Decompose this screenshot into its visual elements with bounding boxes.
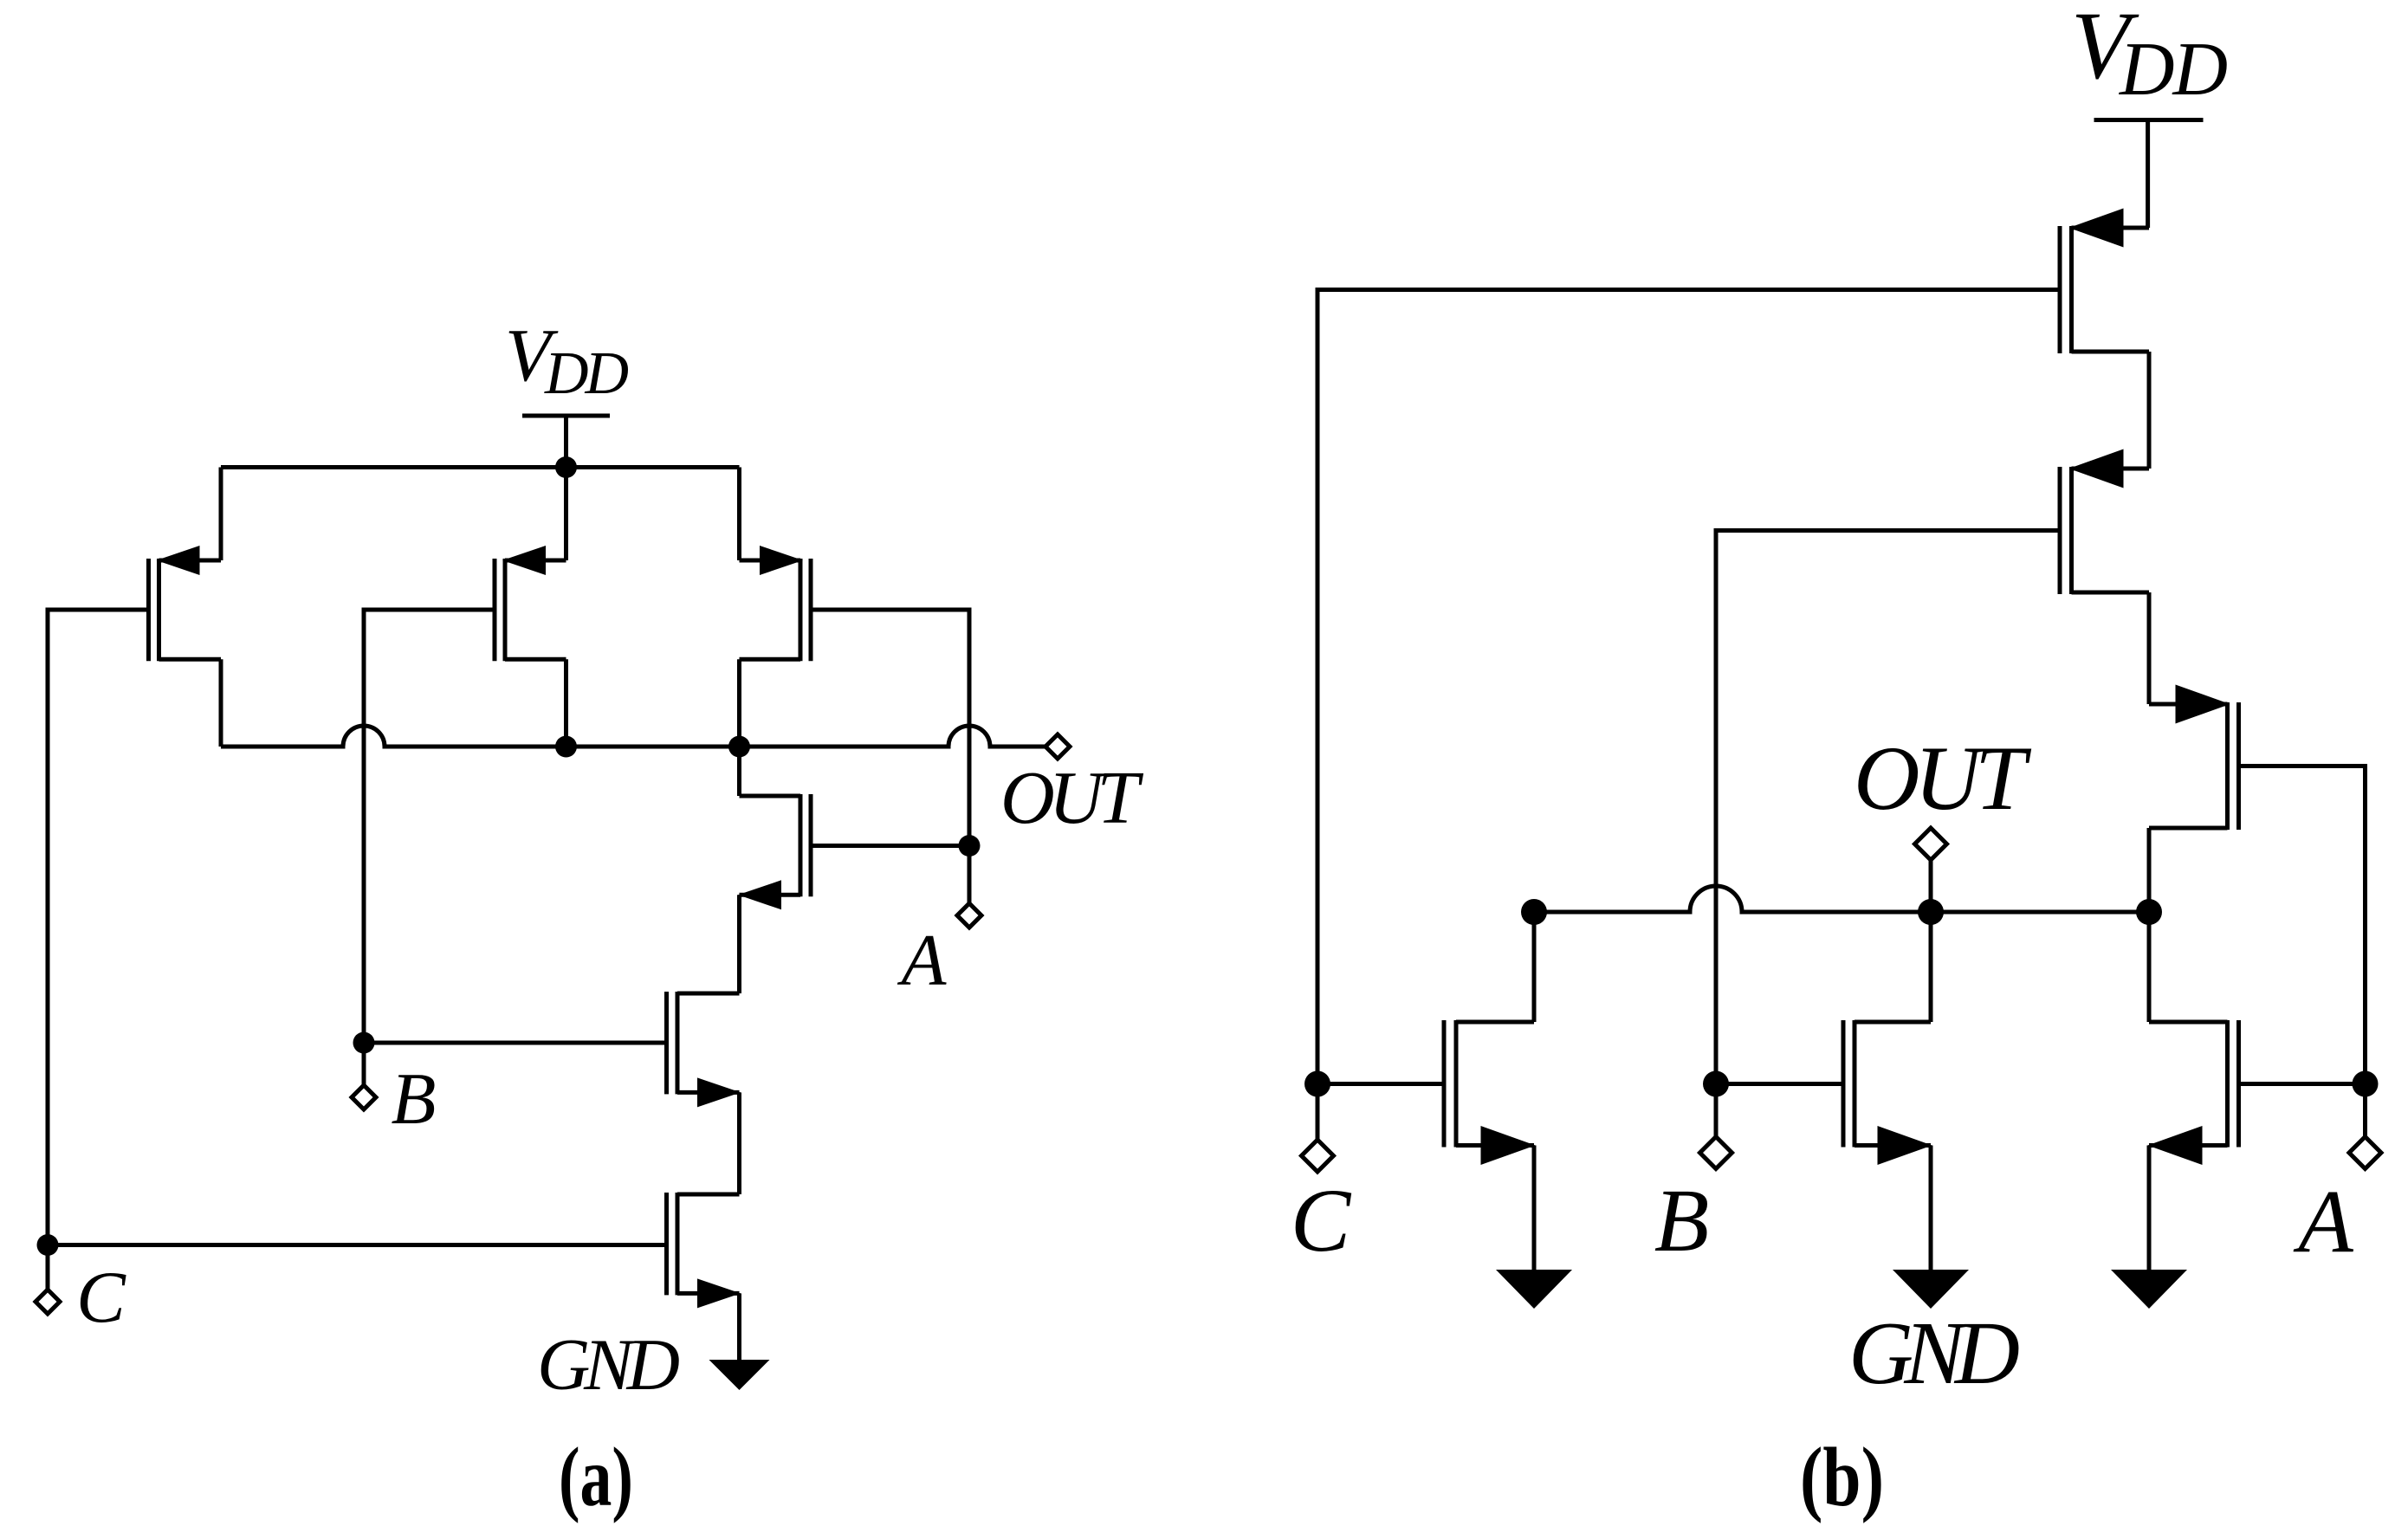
power VDD symbol (b): [2094, 120, 2204, 229]
transistor M2 (PMOS, gate B) (a): [495, 546, 566, 661]
svg-text:DD: DD: [544, 340, 629, 407]
svg-text:(a): (a): [559, 1431, 633, 1524]
terminal: A diamond (b): [2349, 1137, 2381, 1169]
wire: OUT terminal stub (b): [1929, 860, 1933, 912]
ground symbol (a): [709, 1360, 770, 1390]
wire: B lead to N2 gate (b): [1716, 1082, 1843, 1086]
wire: N1 drain trunk (b): [1532, 912, 1537, 1022]
terminal: C diamond (a): [36, 1290, 60, 1314]
svg-text:C: C: [76, 1257, 126, 1338]
wire: M1 source trunk (a): [219, 468, 223, 561]
terminal: B diamond (b): [1700, 1137, 1732, 1169]
svg-text:A: A: [897, 920, 948, 1001]
svg-text:B: B: [392, 1058, 437, 1140]
wire: input C lead to M6 gate (a): [48, 1243, 667, 1247]
ground symbol at N2 (b): [1893, 1270, 1969, 1309]
svg-text:GND: GND: [1848, 1303, 2020, 1403]
svg-text:(b): (b): [1800, 1431, 1884, 1524]
wire: C terminal stub (b): [1316, 1084, 1320, 1141]
label VDD (a): [505, 313, 629, 407]
transistor N2 (NMOS, gate B) (b): [1843, 1020, 1932, 1165]
wire: M1 drain trunk (a): [219, 659, 223, 747]
wire: A terminal stub (b): [2363, 1084, 2367, 1137]
wire: M3 drain trunk to OUT net (b): [2147, 828, 2152, 912]
transistor M4 (NMOS, gate A, mirrored) (a): [738, 794, 811, 909]
wire: M3 drain trunk (a): [737, 659, 741, 747]
label VDD (b): [2071, 0, 2228, 112]
transistor N1 (NMOS, gate C) (b): [1444, 1020, 1536, 1165]
wire: input B net from M2 gate (a): [364, 610, 495, 1043]
wire: M5 source to M6 drain trunk (a): [737, 1092, 741, 1194]
node: C input junction (a): [37, 1234, 59, 1256]
wire: M3 source trunk (a): [737, 468, 741, 561]
transistor M2 (PMOS, gate B, mirrored) (b): [2060, 449, 2149, 595]
transistor N3 (NMOS, gate A, mirrored) (b): [2148, 1020, 2239, 1165]
wire: OUT net horizontal with crossover hop (b): [1534, 886, 2149, 912]
wire: M2 drain trunk (a): [564, 659, 568, 747]
wire: GND stem (a): [737, 1293, 741, 1360]
wire: M4 source to M5 drain trunk (a): [737, 895, 741, 993]
terminal: A diamond (a): [957, 903, 981, 928]
wire: A terminal stub (a): [968, 846, 972, 904]
wire: M4 drain trunk (a): [737, 747, 741, 796]
wire: OUT net horizontal with crossover hops (a): [221, 726, 1045, 747]
wire: N1 source GND stem (b): [1532, 1146, 1537, 1271]
node: A input junction (a): [959, 835, 981, 857]
transistor M6 (NMOS, gate C) (a): [667, 1193, 741, 1308]
node: VDD rail junction (a): [555, 456, 577, 478]
wire: M2 drain to M3 source trunk (b): [2147, 592, 2152, 704]
node: B input junction (a): [353, 1032, 375, 1054]
wire: C terminal stub (a): [46, 1245, 50, 1290]
wire: input C net from M1 gate down left side (b): [1317, 290, 2060, 1084]
terminal: OUT diamond (b): [1915, 828, 1947, 860]
node: B input junction (b): [1703, 1071, 1729, 1097]
terminal: B diamond (a): [352, 1085, 376, 1109]
wire: input A net from M3 gate (a): [811, 610, 969, 846]
wire: A lead to N3 gate (b): [2239, 1082, 2366, 1086]
wire: input A lead to M4 gate (a): [811, 844, 969, 848]
transistor M3 (PMOS, gate A, mirrored) (a): [740, 546, 812, 661]
node: OUT net junction at N1 drain (b): [1521, 899, 1547, 925]
node: C input junction (b): [1304, 1071, 1330, 1097]
node: OUT net junction at M3/N3 (b): [2136, 899, 2162, 925]
node: OUT net junction at M3/M4 (a): [728, 736, 750, 758]
wire: C lead to N1 gate (b): [1317, 1082, 1444, 1086]
wire: N3 drain trunk (b): [2147, 912, 2152, 1022]
wire: N3 source GND stem (b): [2147, 1146, 2152, 1271]
wire: input B lead to M5 gate (a): [364, 1041, 667, 1045]
wire: M2 source trunk (a): [564, 468, 568, 561]
terminal: OUT diamond (a): [1045, 734, 1070, 759]
wire: B terminal stub (b): [1714, 1084, 1719, 1137]
ground symbol at N3 (b): [2111, 1270, 2187, 1309]
ground symbol at N1 (b): [1496, 1270, 1572, 1309]
terminal: C diamond (b): [1302, 1140, 1334, 1172]
node: OUT net junction at M2 drain (a): [555, 736, 577, 758]
wire: M1 drain to M2 source trunk (b): [2147, 352, 2152, 469]
transistor M3 (PMOS, gate A) (b): [2149, 685, 2239, 831]
svg-text:A: A: [2293, 1172, 2353, 1271]
svg-text:B: B: [1654, 1171, 1710, 1271]
svg-text:DD: DD: [2119, 28, 2228, 112]
wire: input B net from M2 gate (b): [1716, 531, 2060, 1084]
svg-text:OUT: OUT: [1000, 755, 1144, 839]
wire: VDD rail (a): [221, 465, 740, 469]
svg-text:OUT: OUT: [1854, 727, 2032, 829]
node: OUT net junction at N2 drain (b): [1918, 899, 1944, 925]
transistor M1 (PMOS, gate C) (a): [149, 546, 222, 661]
transistor M1 (PMOS, gate C, mirrored) (b): [2060, 209, 2149, 354]
transistor M5 (NMOS, gate B) (a): [667, 992, 741, 1107]
wire: input C net from M1 gate down left side (a): [48, 610, 149, 1245]
node: A input junction (b): [2353, 1071, 2379, 1097]
svg-text:GND: GND: [537, 1324, 680, 1406]
wire: input A net from M3 gate (b): [2239, 766, 2366, 1084]
svg-text:C: C: [1291, 1171, 1352, 1271]
wire: N2 source GND stem (b): [1929, 1146, 1933, 1271]
power VDD symbol (a): [522, 416, 610, 468]
wire: N2 drain trunk (b): [1929, 912, 1933, 1022]
wire: B terminal stub (a): [362, 1043, 366, 1085]
